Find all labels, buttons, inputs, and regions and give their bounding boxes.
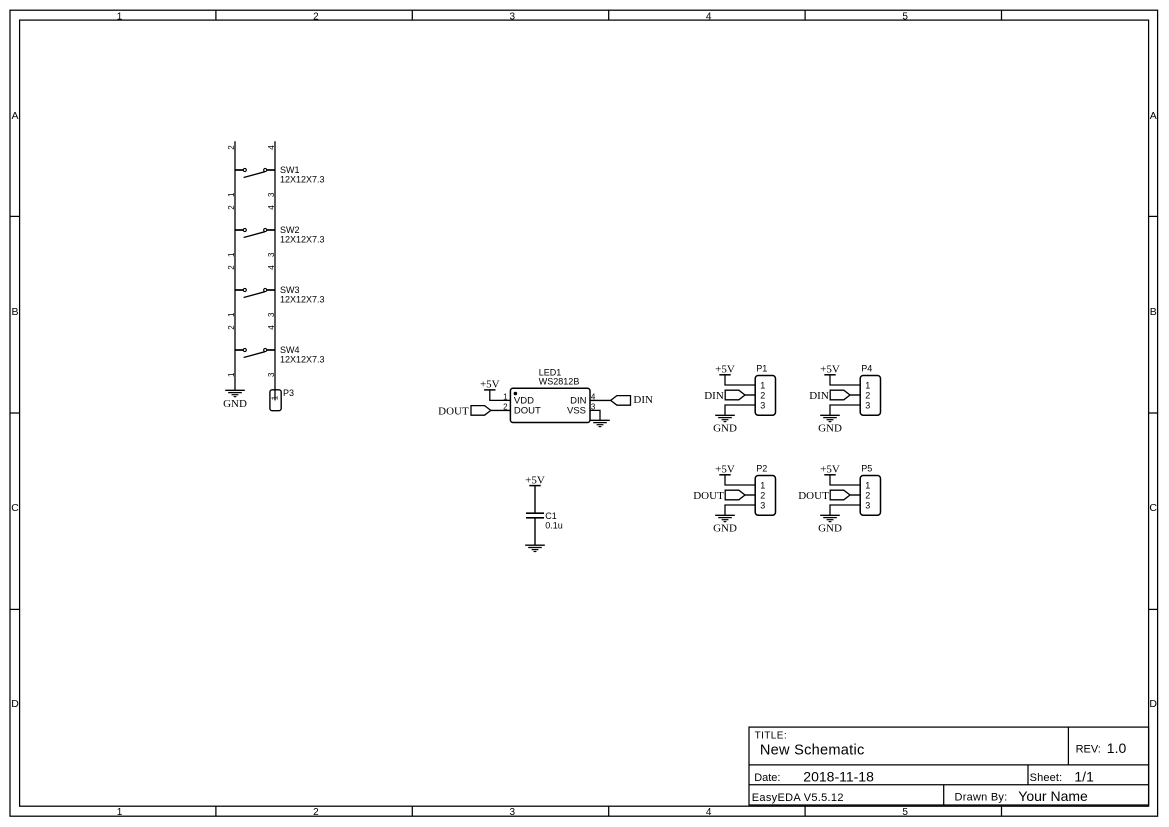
- svg-text:P1: P1: [756, 363, 767, 373]
- wire: DIN port to P4 pin 2: [850, 394, 860, 396]
- wire: ground to P5 pin 3: [830, 505, 860, 515]
- svg-text:1/1: 1/1: [1074, 768, 1094, 784]
- svg-text:2: 2: [865, 490, 870, 500]
- svg-text:Date:: Date:: [754, 772, 780, 784]
- power flag +5V (P2): [715, 464, 735, 476]
- svg-text:4: 4: [267, 205, 276, 210]
- connector P1 body: [755, 376, 775, 416]
- switch SW1: [235, 168, 275, 177]
- svg-text:C: C: [1149, 502, 1157, 514]
- power flag +5V (LED1 VDD): [480, 379, 500, 391]
- ground symbol (C1): [525, 545, 545, 552]
- svg-text:5: 5: [902, 807, 908, 818]
- svg-text:1: 1: [117, 11, 123, 22]
- svg-text:3: 3: [760, 500, 765, 510]
- wire: C1 bottom plate to ground: [534, 518, 536, 545]
- svg-text:2: 2: [313, 11, 319, 22]
- port DIN (to P1 pin 2): [704, 390, 745, 402]
- ground symbol (switch column): [225, 390, 245, 397]
- svg-text:1: 1: [271, 395, 280, 400]
- wire: right switch bus (SW pins 3/4 chain to P3): [274, 141, 276, 389]
- svg-text:+5V: +5V: [715, 464, 735, 476]
- ground symbol (P2): [715, 515, 735, 522]
- svg-text:3: 3: [267, 372, 276, 377]
- connector P2 body: [755, 476, 775, 516]
- port DIN (from LED1 pin 4): [611, 394, 653, 406]
- wire: +5V to C1 top plate: [534, 486, 536, 514]
- svg-text:12X12X7.3: 12X12X7.3: [280, 174, 325, 184]
- svg-text:P5: P5: [861, 463, 872, 473]
- switch SW2: [235, 228, 275, 237]
- svg-text:1: 1: [227, 252, 236, 257]
- svg-text:1: 1: [117, 807, 123, 818]
- ground symbol (LED1 VSS): [590, 420, 610, 427]
- svg-text:Your Name: Your Name: [1018, 788, 1088, 804]
- svg-text:+5V: +5V: [820, 464, 840, 476]
- svg-text:2: 2: [227, 265, 236, 270]
- svg-text:A: A: [1150, 110, 1157, 122]
- svg-text:4: 4: [706, 807, 712, 818]
- svg-text:P4: P4: [861, 363, 872, 373]
- wire: +5V to LED1 pin 1: [490, 390, 511, 401]
- svg-text:A: A: [11, 110, 18, 122]
- ground symbol (P5): [820, 515, 840, 522]
- svg-text:D: D: [1149, 698, 1157, 710]
- svg-text:TITLE:: TITLE:: [755, 730, 787, 741]
- svg-text:Sheet:: Sheet:: [1030, 772, 1063, 784]
- port DIN (to P4 pin 2): [809, 390, 850, 402]
- wire: ground to P1 pin 3: [725, 405, 755, 415]
- svg-text:2: 2: [760, 390, 765, 400]
- svg-text:SW1: SW1: [280, 165, 300, 175]
- svg-text:DIN: DIN: [809, 390, 829, 402]
- wire: ground to P2 pin 3: [725, 505, 755, 515]
- svg-text:GND: GND: [818, 523, 842, 535]
- svg-text:3: 3: [510, 807, 516, 818]
- svg-text:DOUT: DOUT: [438, 406, 469, 418]
- power flag +5V (P4): [820, 364, 840, 376]
- svg-text:2: 2: [313, 807, 319, 818]
- wire: DOUT port to LED1 pin 2: [491, 409, 511, 411]
- svg-text:4: 4: [267, 265, 276, 270]
- power flag +5V (P5): [820, 464, 840, 476]
- svg-text:1: 1: [760, 380, 765, 390]
- svg-text:1: 1: [227, 372, 236, 377]
- svg-text:+5V: +5V: [525, 474, 545, 486]
- wire: DOUT port to P2 pin 2: [745, 494, 755, 496]
- capacitor C1: [526, 513, 544, 518]
- svg-text:1: 1: [865, 480, 870, 490]
- svg-text:REV:: REV:: [1076, 744, 1101, 756]
- IC LED1 WS2812B body: [510, 388, 590, 422]
- P3 pin 1 wire stub: [274, 390, 276, 401]
- wire: +5V to P2 pin 1: [725, 475, 755, 485]
- svg-text:Drawn By:: Drawn By:: [955, 792, 1008, 804]
- svg-text:0.1u: 0.1u: [545, 520, 563, 530]
- power flag +5V (P1): [715, 364, 735, 376]
- svg-text:2: 2: [227, 145, 236, 150]
- wire: +5V to P4 pin 1: [830, 375, 860, 385]
- svg-text:+5V: +5V: [715, 364, 735, 376]
- port DOUT (to P5 pin 2): [798, 490, 850, 502]
- svg-text:GND: GND: [223, 398, 247, 410]
- LED1 pin-1 dot marker: [514, 392, 518, 396]
- svg-text:1: 1: [227, 192, 236, 197]
- svg-text:1.0: 1.0: [1107, 740, 1127, 756]
- ground symbol (P1): [715, 415, 735, 422]
- svg-text:WS2812B: WS2812B: [539, 377, 580, 387]
- svg-text:D: D: [11, 698, 19, 710]
- wire: +5V to P5 pin 1: [830, 475, 860, 485]
- wire: DIN port to P1 pin 2: [745, 394, 755, 396]
- ground symbol (P4): [820, 415, 840, 422]
- svg-text:DOUT: DOUT: [798, 490, 829, 502]
- wire: LED1 pin 4 to DIN port: [590, 399, 611, 401]
- svg-text:3: 3: [760, 400, 765, 410]
- svg-text:12X12X7.3: 12X12X7.3: [280, 234, 325, 244]
- wire: +5V to P1 pin 1: [725, 375, 755, 385]
- svg-text:GND: GND: [713, 523, 737, 535]
- svg-text:3: 3: [510, 11, 516, 22]
- svg-text:SW3: SW3: [280, 285, 300, 295]
- svg-text:3: 3: [267, 192, 276, 197]
- svg-text:B: B: [1150, 306, 1157, 318]
- svg-text:4: 4: [267, 145, 276, 150]
- connector P3: [270, 390, 281, 411]
- svg-text:P3: P3: [283, 388, 294, 398]
- svg-text:+5V: +5V: [820, 364, 840, 376]
- svg-text:2: 2: [760, 490, 765, 500]
- svg-text:SW2: SW2: [280, 225, 300, 235]
- wire: left switch bus (SW pins 1/2 chain to GND): [234, 141, 236, 390]
- wire: ground to P4 pin 3: [830, 405, 860, 415]
- switch SW4: [235, 348, 275, 357]
- svg-text:VSS: VSS: [567, 406, 586, 417]
- svg-text:4: 4: [267, 325, 276, 330]
- svg-text:DOUT: DOUT: [514, 406, 541, 417]
- connector P4 body: [860, 376, 880, 416]
- svg-text:1: 1: [503, 392, 508, 401]
- svg-text:B: B: [11, 306, 18, 318]
- svg-text:P2: P2: [756, 463, 767, 473]
- svg-text:3: 3: [267, 252, 276, 257]
- svg-text:C: C: [11, 502, 19, 514]
- svg-text:SW4: SW4: [280, 345, 300, 355]
- svg-text:1: 1: [760, 480, 765, 490]
- svg-text:+5V: +5V: [480, 379, 500, 391]
- connector P5 body: [860, 476, 880, 516]
- svg-text:GND: GND: [818, 423, 842, 435]
- svg-text:3: 3: [865, 500, 870, 510]
- wire: LED1 pin 3 VSS to ground: [590, 410, 600, 420]
- port DOUT (into LED1 pin 2): [438, 406, 491, 418]
- svg-text:DIN: DIN: [704, 390, 724, 402]
- svg-text:12X12X7.3: 12X12X7.3: [280, 354, 325, 364]
- svg-text:2: 2: [227, 325, 236, 330]
- svg-text:DOUT: DOUT: [693, 490, 724, 502]
- svg-text:1: 1: [227, 312, 236, 317]
- svg-text:4: 4: [706, 11, 712, 22]
- svg-text:3: 3: [865, 400, 870, 410]
- power flag +5V (C1): [525, 474, 545, 486]
- svg-text:New Schematic: New Schematic: [760, 742, 865, 758]
- port DOUT (to P2 pin 2): [693, 490, 745, 502]
- svg-text:DIN: DIN: [633, 394, 653, 406]
- svg-text:3: 3: [267, 312, 276, 317]
- switch SW3: [235, 288, 275, 297]
- svg-text:12X12X7.3: 12X12X7.3: [280, 294, 325, 304]
- svg-text:5: 5: [902, 11, 908, 22]
- svg-text:2: 2: [227, 205, 236, 210]
- svg-text:1: 1: [865, 380, 870, 390]
- wire: DOUT port to P5 pin 2: [850, 494, 860, 496]
- svg-text:GND: GND: [713, 423, 737, 435]
- svg-text:2: 2: [865, 390, 870, 400]
- svg-text:EasyEDA V5.5.12: EasyEDA V5.5.12: [752, 792, 844, 804]
- svg-text:2018-11-18: 2018-11-18: [803, 768, 874, 784]
